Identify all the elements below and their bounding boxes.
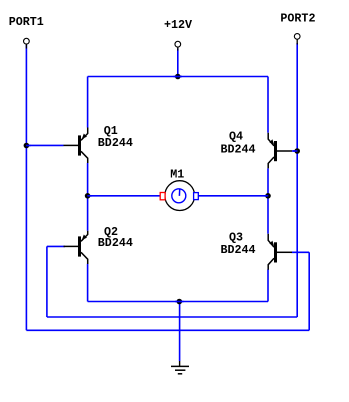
svg-text:BD244: BD244 [98,236,133,250]
svg-text:+12V: +12V [164,18,192,32]
svg-text:M1: M1 [170,168,184,182]
svg-text:PORT1: PORT1 [9,15,44,29]
svg-text:BD244: BD244 [221,243,256,257]
svg-text:PORT2: PORT2 [280,12,315,26]
svg-text:BD244: BD244 [221,143,256,157]
svg-text:Q4: Q4 [229,130,243,144]
svg-text:BD244: BD244 [98,136,133,150]
svg-text:Q3: Q3 [229,230,243,244]
